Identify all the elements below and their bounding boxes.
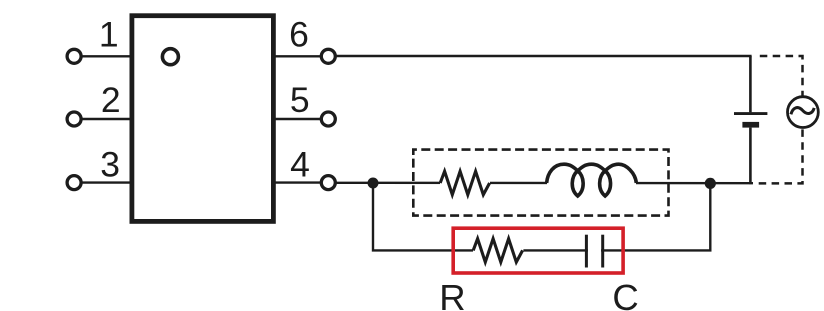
wire right vertical source branch lower (749, 128, 752, 185)
terminal circle pin 1 (67, 49, 81, 63)
terminal circle pin 2 (67, 112, 81, 126)
svg-text:1: 1 (99, 14, 119, 54)
wire right vertical of RC branch (624, 183, 710, 250)
wire right vertical source branch upper (749, 56, 752, 112)
capacitor C plates (588, 235, 601, 268)
svg-text:4: 4 (290, 144, 310, 184)
inductor L (series RL branch) (547, 162, 636, 202)
svg-text:2: 2 (101, 80, 121, 120)
IC U1 body (132, 16, 274, 222)
wire pin 5 lead (274, 118, 329, 120)
battery B1 long plate (734, 112, 767, 115)
resistor R (series RC branch) (473, 238, 523, 262)
wire pin 3 lead (74, 181, 132, 183)
wire pin 1 lead (74, 55, 132, 57)
dashed link: battery node over AC source to bottom node (755, 56, 803, 183)
terminal circle pin 3 (67, 176, 81, 190)
AC source sine symbol (791, 108, 814, 115)
wire top net pin6 to source (328, 55, 751, 57)
terminal circle pin 4 (321, 176, 335, 190)
AC source circle (788, 97, 819, 128)
resistor (series RL branch) (440, 171, 490, 195)
terminal circle pin 5 (321, 112, 335, 126)
svg-text:6: 6 (289, 14, 309, 54)
battery B1 short thick plate (742, 122, 759, 128)
wire left vertical of RC branch (373, 183, 453, 250)
wire pin4 row: terminal to RL network to battery (328, 182, 753, 185)
wire pin 2 lead (74, 118, 132, 120)
wire pin 6 lead (274, 55, 329, 57)
dashed box around series RL (413, 150, 668, 216)
red highlight box around series RC (453, 228, 623, 273)
junction node left (368, 178, 379, 189)
terminal circle pin 6 (321, 49, 335, 63)
svg-text:R: R (439, 277, 465, 311)
wire RC branch middle (453, 249, 624, 251)
junction node right (705, 178, 716, 189)
svg-text:3: 3 (100, 144, 120, 184)
svg-text:5: 5 (290, 80, 310, 120)
svg-text:C: C (612, 277, 638, 311)
wire pin 4 lead (274, 181, 329, 183)
IC pin-1 index marker (162, 49, 178, 65)
